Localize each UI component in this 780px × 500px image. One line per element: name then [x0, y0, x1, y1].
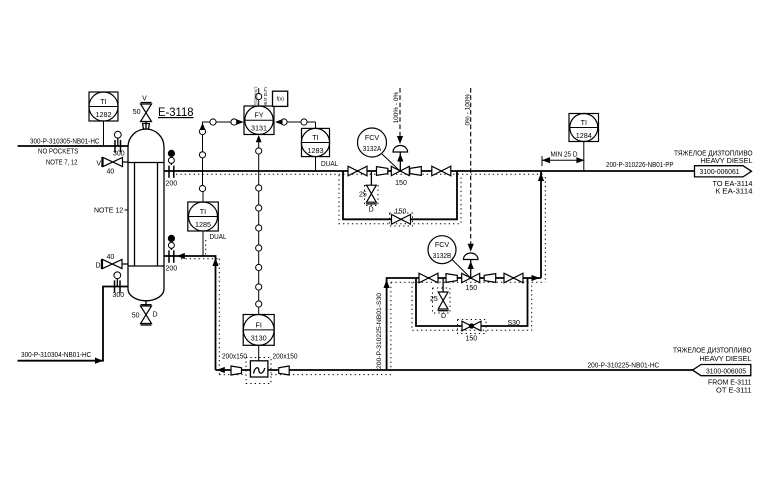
blind circles bottom-right nozzle [170, 242, 172, 250]
svg-text:300: 300 [113, 292, 125, 299]
svg-text:D: D [369, 206, 374, 213]
svg-text:200-P-310225-NB01-HC: 200-P-310225-NB01-HC [588, 363, 660, 370]
svg-text:FCV: FCV [365, 133, 380, 142]
svg-text:ОТ E-3111: ОТ E-3111 [716, 385, 752, 394]
dashed signal 0%-100% to FCV B [470, 88, 472, 244]
dotted tracing box around flow meter [246, 358, 271, 384]
svg-text:25: 25 [359, 192, 367, 199]
control valve FCV3132B bowtie [462, 273, 480, 282]
function box f(x) [273, 91, 288, 106]
instrument balloon FCV3132B [428, 236, 471, 278]
valve V1 vent 50 top vertical bowtie [141, 104, 152, 122]
svg-text:150: 150 [465, 285, 477, 292]
connector in 3100-006005 [693, 365, 751, 376]
svg-text:D: D [95, 262, 100, 269]
vessel tube bundle left line [134, 163, 136, 267]
FCV A actuator stem and dome [399, 152, 401, 171]
valve A1 block bowtie [348, 166, 367, 176]
svg-text:3130: 3130 [251, 333, 267, 342]
svg-text:V: V [96, 160, 101, 167]
svg-text:40: 40 [107, 168, 115, 175]
svg-text:HEAVY DIESEL: HEAVY DIESEL [701, 156, 753, 165]
instrument FY3131 [244, 88, 274, 135]
svg-text:300-P-310304-NB01-HC: 300-P-310304-NB01-HC [21, 352, 91, 359]
svg-text:D: D [441, 313, 446, 320]
svg-text:DUAL: DUAL [210, 234, 227, 241]
dotted tracing below bottom pipe [219, 374, 392, 376]
dotted tracing below B station run [391, 281, 545, 283]
svg-text:3132A: 3132A [363, 144, 382, 153]
signal wire FI3130 to FY3131 bottom input [258, 142, 260, 309]
blind circle top-left nozzle [117, 138, 119, 146]
svg-text:S30: S30 [508, 320, 521, 327]
valve V4 bottom cap [141, 324, 152, 326]
vessel bottom stub [141, 301, 152, 306]
svg-text:E-3118: E-3118 [158, 105, 194, 119]
svg-text:3132B: 3132B [433, 251, 452, 260]
svg-text:NO POCKETS: NO POCKETS [38, 149, 79, 156]
dotted tracing box around drain A [365, 186, 379, 206]
svg-text:HEAT DUTY: HEAT DUTY [263, 87, 268, 107]
instrument TI1283 [301, 122, 329, 171]
control valve FCV3132A bowtie [391, 166, 409, 175]
svg-text:200: 200 [166, 266, 178, 273]
vessel E-3118 shell [128, 129, 164, 301]
reducer B right 150x200 [484, 274, 496, 283]
svg-text:0% - 100%: 0% - 100% [464, 93, 471, 125]
svg-text:50: 50 [132, 312, 140, 319]
wire drain B stem [442, 278, 444, 292]
valve A2 block bowtie [432, 166, 451, 176]
arrow up on B riser [538, 173, 544, 181]
arrow right at B station outlet [532, 275, 540, 281]
svg-text:V: V [142, 96, 147, 103]
FCV B fail-open arrow [468, 261, 474, 269]
FCV A fail-open arrow [397, 154, 403, 162]
dashed signal 100%-0% to FCV A [399, 88, 401, 136]
arrow left into bottom-right nozzle [177, 253, 185, 259]
svg-text:200x150: 200x150 [222, 354, 247, 361]
svg-text:150: 150 [395, 209, 407, 216]
svg-text:f(x): f(x) [276, 97, 284, 103]
vessel top nozzle stub trapezoid [143, 124, 150, 130]
FCV B actuator stem and dome [470, 260, 472, 279]
instrument balloon FCV3132A [358, 128, 401, 171]
arrow up below corner x215.5 [212, 258, 218, 266]
flow meter box with S-curve [250, 361, 268, 377]
wire B station feed riser and run y278 [387, 278, 541, 370]
flange pair bottom-right nozzle 200 [169, 250, 174, 262]
signal wire TI1285 riser to FY3131 left input [203, 122, 238, 191]
reducer A left 200x150 [377, 167, 388, 176]
wire bypass B loop [416, 278, 528, 326]
svg-text:DUAL: DUAL [321, 161, 338, 168]
flange pair top-left nozzle 300 [115, 140, 121, 152]
svg-text:25: 25 [430, 296, 438, 303]
svg-text:MIN 25 D: MIN 25 D [551, 151, 578, 158]
wire pipe 300-P-310305 inlet top-left [18, 145, 130, 147]
reducer meter right 150x200 [279, 366, 290, 375]
svg-text:3100-006061: 3100-006061 [700, 169, 740, 176]
reducer B left 200x150 [446, 274, 457, 283]
connector out 3100-006061 [695, 166, 752, 177]
arrow left on bottom pipe into corner [217, 367, 225, 373]
instrument TI1282 [89, 92, 118, 146]
arrow up on B feed riser [384, 280, 390, 289]
svg-text:150: 150 [395, 180, 407, 187]
valve V3 stub to vessel and left cap [102, 259, 129, 269]
svg-text:1282: 1282 [96, 110, 112, 119]
svg-text:1285: 1285 [195, 220, 211, 229]
wire B riser x541 [540, 171, 542, 278]
svg-text:1284: 1284 [576, 131, 592, 140]
svg-text:FY: FY [254, 111, 263, 120]
valve V3 drain 40 left-bottom bowtie [103, 260, 123, 269]
svg-text:50: 50 [133, 109, 141, 116]
blind circle bottom-left nozzle [116, 279, 118, 287]
vessel tube bundle right line [157, 163, 159, 267]
arrow down into FCV A actuator [397, 136, 403, 144]
svg-text:TI: TI [200, 207, 206, 216]
svg-text:FCV: FCV [435, 240, 450, 249]
valve V4 drain 50 bottom vertical bowtie [141, 306, 152, 324]
valve A drain 25 vertical bowtie [367, 185, 377, 202]
valve B2 block bowtie [504, 273, 523, 283]
svg-text:100% - 0%: 100% - 0% [393, 91, 400, 123]
svg-text:ТЕПЛОВАЯ НАГР.: ТЕПЛОВАЯ НАГР. [253, 87, 258, 107]
valve B bypass globe 150 with dot [462, 321, 481, 331]
svg-text:TI: TI [581, 118, 587, 127]
svg-text:150: 150 [465, 336, 477, 343]
svg-text:FI: FI [256, 320, 262, 329]
wire pipe 300-P-310304 bottom-left with riser to bottom nozzle [18, 287, 130, 361]
wire drain A stem [370, 171, 372, 186]
reducer A right 150x200 [410, 167, 422, 176]
dotted tracing riser x545 down to B station [544, 177, 546, 282]
dotted tracing box around bypass B [412, 282, 532, 330]
blind circles top-right nozzle [170, 157, 172, 165]
dotted tracing right of riser x219 [218, 259, 220, 375]
vessel tube sheet bottom [128, 265, 164, 267]
svg-text:TI: TI [312, 133, 318, 142]
flange pair top-right nozzle 200 [169, 166, 174, 178]
valve B drain 25 vertical bowtie [438, 292, 448, 309]
dotted tracing box around drain B [433, 288, 451, 313]
instrument TI1285 [188, 191, 219, 256]
svg-text:К EA-3114: К EA-3114 [716, 187, 753, 196]
svg-text:200-P-310225-NB01-S30: 200-P-310225-NB01-S30 [376, 293, 383, 369]
svg-text:300: 300 [113, 151, 125, 158]
svg-text:300-P-310305-NB01-HC: 300-P-310305-NB01-HC [30, 139, 100, 146]
reducer meter left 200x150 [231, 366, 242, 375]
svg-text:D: D [153, 311, 158, 318]
dotted tracing box around bypass A [339, 175, 461, 224]
dotted tracing right of B feed riser [390, 282, 392, 370]
svg-text:3100-006005: 3100-006005 [706, 368, 746, 375]
dotted tracing box around bypass A globe valve [390, 213, 413, 226]
wire riser x215.5 and pipe into bottom-right nozzle [164, 256, 216, 370]
svg-text:200: 200 [166, 181, 178, 188]
valve V1 stem and top cap [141, 103, 152, 130]
svg-text:40: 40 [107, 254, 115, 261]
svg-text:200-P-310226-NB01-PP: 200-P-310226-NB01-PP [606, 162, 674, 169]
svg-text:1283: 1283 [308, 146, 324, 155]
flange pair bottom-left nozzle 300 [115, 280, 121, 292]
valve B1 block bowtie [419, 273, 438, 283]
valve V2 stub to vessel and left cap [102, 157, 129, 167]
valve V2 vent 40 left-top bowtie [103, 158, 123, 167]
instrument TI1284 [569, 114, 599, 172]
vessel tube sheet top [128, 162, 164, 164]
svg-text:3131: 3131 [251, 124, 267, 133]
wire bottom pipe y370 from corner to connector [216, 369, 695, 371]
wire bypass A loop [343, 171, 457, 219]
arrow down into FCV B actuator [468, 244, 474, 252]
instrument FI3130 [243, 308, 274, 361]
dotted tracing below main outlet pipe [176, 173, 545, 175]
svg-text:NOTE 12: NOTE 12 [94, 208, 123, 215]
svg-text:HEAVY DIESEL: HEAVY DIESEL [700, 354, 752, 363]
svg-text:200x150: 200x150 [273, 354, 298, 361]
dimension MIN 25 D [542, 156, 584, 166]
svg-text:TI: TI [100, 97, 106, 106]
signal wire TI1283 to FY3131 [281, 121, 316, 123]
svg-text:NOTE 7, 12: NOTE 7, 12 [46, 160, 78, 167]
valve A bypass globe 150 [392, 215, 411, 225]
dotted tracing box around bypass B globe valve [458, 320, 487, 334]
dotted tracing right of TI1285 stem [205, 240, 207, 256]
dotted tracing below bottom-right nozzle pipe [181, 258, 219, 260]
wire main outlet pipe y171 vessel to connector [164, 170, 694, 172]
arrow flow right on 310304 line [95, 358, 103, 364]
